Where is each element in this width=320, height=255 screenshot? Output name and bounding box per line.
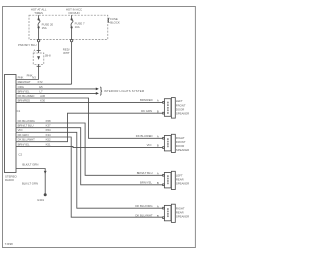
svg-text:DK BLU/WHT: DK BLU/WHT [18, 138, 36, 142]
svg-text:C1: C1 [17, 109, 21, 113]
svg-text:DK BLU/RED: DK BLU/RED [18, 94, 35, 98]
speaker SP3 wire labels and pins [137, 171, 165, 176]
wire RED/WHT down to row A2 [71, 42, 73, 84]
wire A4 BRN/YEL to interior lights [16, 89, 99, 95]
svg-text:SPEAKER: SPEAKER [176, 182, 189, 186]
svg-text:N3: N3 [32, 75, 36, 79]
svg-text:VIO: VIO [147, 143, 153, 147]
svg-text:15A: 15A [42, 26, 47, 30]
svg-text:BRN/YEL: BRN/YEL [18, 142, 30, 146]
connector left rear speaker [164, 173, 171, 188]
svg-text:L7: L7 [39, 89, 43, 93]
svg-text:A: A [157, 204, 159, 208]
svg-text:BRN/RED: BRN/RED [140, 98, 153, 102]
svg-text:B: B [157, 109, 159, 113]
svg-text:BLK/LT GRN: BLK/LT GRN [22, 181, 38, 185]
svg-text:B: B [157, 214, 159, 218]
speaker RIGHT FRONT DOOR SPEAKER [171, 134, 189, 152]
svg-text:DK BLU/RED: DK BLU/RED [136, 134, 153, 138]
svg-text:DK BLU/ORG: DK BLU/ORG [18, 119, 35, 123]
speaker SP2 wire labels and pins [136, 134, 165, 139]
svg-text:B: B [157, 181, 159, 185]
label STEREO RADIO [5, 175, 17, 183]
svg-text:SPEAKER: SPEAKER [176, 112, 189, 116]
svg-text:BRN/LT BLU: BRN/LT BLU [18, 124, 34, 128]
wire A1 PNK [16, 75, 39, 79]
svg-text:K52: K52 [46, 138, 51, 142]
svg-text:A36: A36 [40, 94, 45, 98]
ground splice marker [44, 171, 47, 174]
svg-text:K30: K30 [40, 98, 45, 102]
svg-text:OR RUN: OR RUN [68, 11, 79, 15]
pin tick below JB-8 [37, 65, 41, 67]
svg-text:10A: 10A [75, 25, 80, 29]
svg-text:VIO: VIO [18, 128, 24, 132]
wire ground BLK/LT GRN [16, 162, 45, 194]
wire PNK/SKY BLU down [38, 42, 40, 53]
label FUSE 7 10A [75, 22, 85, 30]
svg-text:K72: K72 [38, 80, 43, 84]
svg-text:ORG: ORG [18, 85, 24, 89]
svg-text:TJF98: TJF98 [5, 242, 13, 246]
connector right rear speaker [164, 205, 171, 220]
wire fuse20 to connector circle [38, 27, 40, 39]
wire B2 BRN/LT BLU to left rear - [16, 124, 163, 185]
wire A2 RED/WHT [16, 80, 72, 84]
svg-text:RED/WHT: RED/WHT [18, 80, 31, 84]
svg-text:A: A [157, 171, 159, 175]
speaker LEFT REAR SPEAKER [171, 171, 189, 189]
svg-text:BRN/RED: BRN/RED [18, 98, 31, 102]
svg-text:K34: K34 [46, 133, 51, 137]
wire A5 DK BLU/RED to right front speaker + [16, 94, 163, 138]
pin tick A [33, 49, 40, 53]
svg-text:B: B [157, 144, 159, 148]
svg-text:JB-8: JB-8 [45, 54, 51, 58]
svg-text:RADIO: RADIO [5, 178, 15, 182]
speaker SP4 wire labels and pins [135, 204, 164, 209]
label HOT AT ALL TIMES [31, 8, 47, 16]
wire B4 DK GRN to right rear - [16, 133, 163, 217]
label FUSE BLOCK [108, 17, 120, 25]
svg-text:A: A [157, 99, 159, 103]
svg-text:A: A [157, 134, 159, 138]
svg-text:K54: K54 [46, 128, 51, 132]
wire A3 ORG to interior lights [16, 85, 99, 91]
connector circle right [70, 39, 72, 41]
fuse block dashed box [29, 15, 108, 39]
svg-text:WHT: WHT [63, 51, 70, 55]
label INTERIOR LIGHTS SYSTEM [100, 87, 145, 96]
svg-text:DK GRN: DK GRN [18, 133, 29, 137]
label HOT IN ACC OR RUN [66, 8, 82, 16]
wire B3 VIO to right rear + [16, 128, 163, 208]
connector JB-8 [33, 53, 51, 64]
svg-text:BLOCK: BLOCK [110, 21, 120, 25]
svg-text:SPEAKER: SPEAKER [176, 148, 189, 152]
svg-text:BLK/LT GRN: BLK/LT GRN [22, 162, 38, 166]
wire A6 BRN/RED to left front speaker + [16, 98, 163, 102]
wire fuse7 feed [71, 15, 73, 19]
connector right front door speaker [164, 136, 171, 151]
svg-text:BRN/LT BLU: BRN/LT BLU [137, 171, 153, 175]
ground G301 [37, 193, 47, 202]
svg-text:G5: G5 [39, 85, 43, 89]
svg-text:K37: K37 [46, 124, 51, 128]
svg-text:SPEAKER: SPEAKER [176, 215, 189, 219]
svg-text:BRN/YEL: BRN/YEL [18, 89, 30, 93]
label RED/WHT [63, 47, 70, 55]
connector left front door speaker [164, 99, 171, 117]
label FUSE 20 15A [42, 23, 54, 31]
wire B5 DK BLU/WHT up to left front - [16, 113, 163, 142]
svg-text:DK GRN: DK GRN [141, 109, 152, 113]
speaker LEFT FRONT DOOR SPEAKER [171, 98, 189, 119]
svg-text:G301: G301 [37, 198, 44, 202]
svg-text:PNK/SKY BLU: PNK/SKY BLU [18, 43, 37, 47]
connector circle left [37, 39, 39, 41]
wire fuse7 to connector circle [71, 27, 73, 39]
svg-text:DK BLU/ORG: DK BLU/ORG [135, 204, 152, 208]
svg-text:DK BLU/WHT: DK BLU/WHT [135, 214, 153, 218]
svg-text:INTERIOR LIGHTS SYSTEM: INTERIOR LIGHTS SYSTEM [104, 89, 145, 93]
wire PNK down to row A1 [38, 64, 40, 79]
speaker SP1 wire labels and pins [140, 98, 164, 103]
border frame [3, 7, 196, 248]
svg-text:K58: K58 [46, 119, 51, 123]
fuse F7 [71, 18, 74, 28]
wire B6 BRN/YEL to right front - [16, 142, 163, 147]
wire B1 DK BLU/ORG to left rear + [16, 119, 163, 175]
radio box [5, 75, 17, 173]
svg-text:TIMES: TIMES [34, 11, 43, 15]
svg-text:BRN/YEL: BRN/YEL [140, 181, 152, 185]
svg-text:A: A [33, 49, 35, 53]
speaker RIGHT REAR SPEAKER [171, 204, 189, 222]
wire fuse20 feed [38, 15, 40, 19]
fuse F20 [38, 18, 41, 28]
svg-text:PNK: PNK [18, 75, 24, 79]
svg-text:K51: K51 [46, 142, 51, 146]
svg-text:C2: C2 [18, 153, 22, 157]
